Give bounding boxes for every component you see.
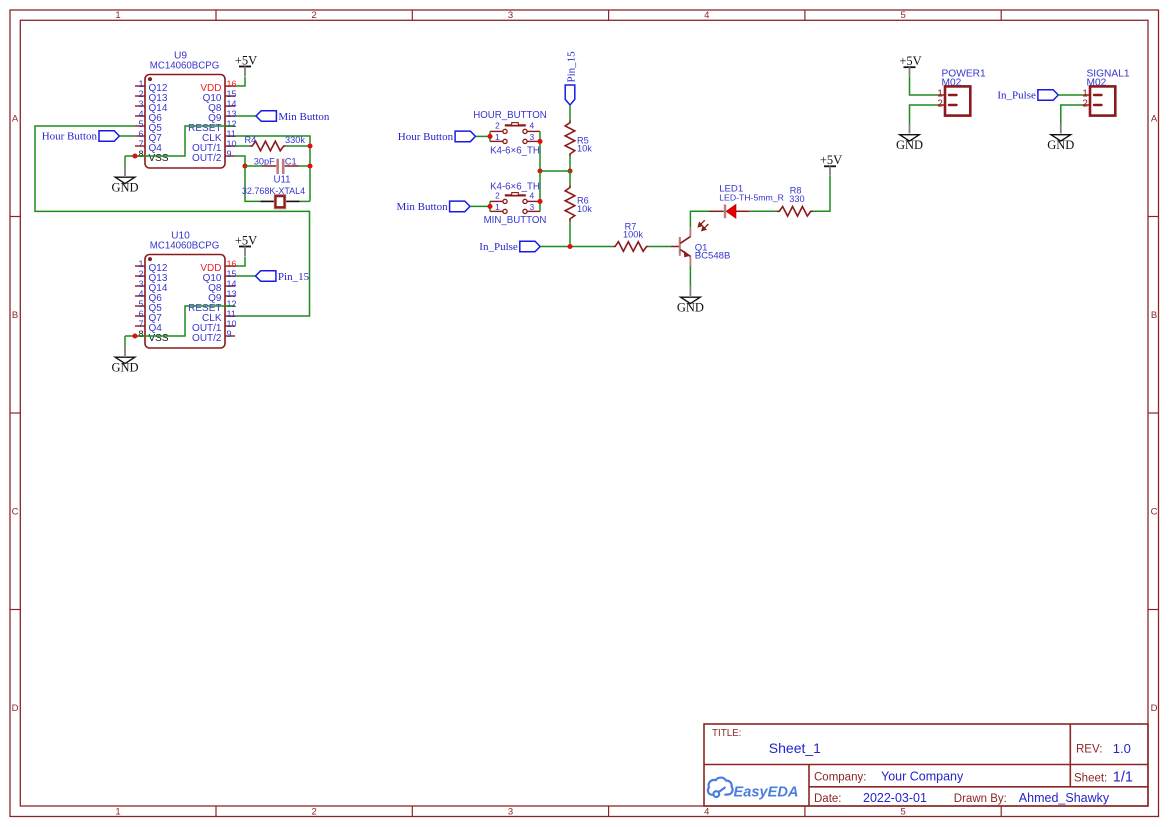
svg-text:12: 12 xyxy=(227,119,237,129)
switch HOUR_BUTTON pin 2 lead xyxy=(490,130,503,132)
switch HOUR_BUTTON pin 1 lead xyxy=(490,140,503,142)
wire U9 pin11 CLK to crystal net xyxy=(235,136,310,201)
IC U10 pin 12 (RESET) stub xyxy=(225,305,235,307)
switch HOUR_BUTTON actuator bar xyxy=(505,124,526,126)
svg-text:GND: GND xyxy=(677,300,704,314)
svg-text:330k: 330k xyxy=(285,135,305,145)
IC U10 pin 9 (OUT/2) stub xyxy=(225,335,235,337)
svg-text:MC14060BCPG: MC14060BCPG xyxy=(150,241,219,252)
IC U10 pin 13 (Q9) stub xyxy=(225,295,235,297)
IC U9 pin 13 (Q9) stub xyxy=(225,115,235,117)
svg-text:D: D xyxy=(1151,703,1158,714)
wire Q1 emitter down xyxy=(689,266,691,286)
frame column tick top 1 xyxy=(215,10,217,20)
wire U9 pin9 down to C1 row xyxy=(235,156,245,166)
junction at row join xyxy=(537,168,542,173)
net port Min Button (middle) xyxy=(450,201,470,212)
net port In_Pulse (middle) xyxy=(520,241,540,252)
IC U9 pin 1 (Q12) stub xyxy=(135,85,145,87)
svg-text:1: 1 xyxy=(495,132,500,142)
switch HOUR_BUTTON pin 2 contact circle xyxy=(503,129,507,133)
svg-text:4: 4 xyxy=(138,109,143,119)
resistor R6 10k xyxy=(569,171,571,186)
svg-text:14: 14 xyxy=(227,99,237,109)
svg-text:GND: GND xyxy=(111,360,138,374)
wire crystal right to node column xyxy=(300,200,310,202)
resistor R8 330 xyxy=(777,207,813,217)
svg-text:MIN_BUTTON: MIN_BUTTON xyxy=(484,215,547,226)
svg-text:HOUR_BUTTON: HOUR_BUTTON xyxy=(473,110,547,121)
svg-text:MC14060BCPG: MC14060BCPG xyxy=(150,61,219,72)
svg-text:Sheet:: Sheet: xyxy=(1074,772,1107,784)
net port Hour Button (middle) xyxy=(455,131,475,142)
svg-text:R4: R4 xyxy=(245,135,257,145)
frame row tick right 1 xyxy=(1148,216,1159,218)
svg-text:3: 3 xyxy=(508,807,513,818)
svg-text:10k: 10k xyxy=(577,144,592,154)
svg-text:GND: GND xyxy=(896,138,923,152)
svg-text:8: 8 xyxy=(138,329,143,339)
svg-text:B: B xyxy=(12,310,18,321)
crystal U11 32.768K-XTAL4 xyxy=(260,200,274,202)
frame row tick right 3 xyxy=(1148,609,1159,611)
svg-text:OUT/2: OUT/2 xyxy=(192,153,222,164)
svg-text:1: 1 xyxy=(115,807,120,818)
svg-text:1.0: 1.0 xyxy=(1113,741,1131,756)
svg-text:5: 5 xyxy=(138,119,143,129)
svg-text:K4-6×6_TH: K4-6×6_TH xyxy=(490,145,540,156)
IC U9 pin 4 (Q6) stub xyxy=(135,115,145,117)
svg-text:2: 2 xyxy=(138,89,143,99)
wire R4 right to node xyxy=(286,145,310,147)
wire Hour port to switch xyxy=(476,135,491,137)
junction hour left xyxy=(487,134,492,139)
switch MIN_BUTTON pin 3 contact circle xyxy=(523,209,527,213)
net port Pin_15 (at U10 pin15) xyxy=(256,271,276,282)
svg-text:REV:: REV: xyxy=(1076,744,1102,756)
ground GND (U10) xyxy=(124,346,126,356)
wire SIGNAL1 pin2 to ground xyxy=(1061,105,1083,124)
IC U9 pin 9 (OUT/2) stub xyxy=(225,155,235,157)
resistor R5 10k xyxy=(565,120,575,156)
svg-text:In_Pulse: In_Pulse xyxy=(479,241,518,253)
svg-text:2: 2 xyxy=(138,269,143,279)
IC U10 pin 8 (VSS) stub xyxy=(135,335,145,337)
net port In_Pulse (at SIGNAL1) xyxy=(1038,90,1058,101)
svg-text:6: 6 xyxy=(138,129,143,139)
ground GND (SIGNAL1) xyxy=(1060,124,1062,134)
svg-text:9: 9 xyxy=(227,149,232,159)
IC U9 pin 5 (Q5) stub xyxy=(135,125,145,127)
IC U10 pin 16 (VDD) stub xyxy=(225,265,235,267)
svg-text:30pF: 30pF xyxy=(254,156,275,166)
connector SIGNAL1 pin 1 inner bar xyxy=(1094,94,1102,96)
capacitor C1 30pF xyxy=(245,165,262,167)
svg-text:3: 3 xyxy=(508,10,513,21)
junction C1 right xyxy=(307,163,312,168)
junction U9 VSS node xyxy=(132,153,137,158)
svg-text:VSS: VSS xyxy=(149,153,169,164)
net port Pin_15 (top, pointing down) xyxy=(565,85,575,105)
wire In_Pulse port to SIGNAL1 pin1 xyxy=(1058,94,1082,96)
svg-text:A: A xyxy=(12,114,19,125)
wire min switch left bracket xyxy=(489,201,491,211)
switch HOUR_BUTTON actuator knob xyxy=(512,123,519,126)
svg-text:Your Company: Your Company xyxy=(881,770,964,784)
frame column tick bottom 3 xyxy=(608,806,610,817)
svg-text:11: 11 xyxy=(227,309,236,319)
IC U9 pin 7 (Q4) stub xyxy=(135,145,145,147)
svg-text:5: 5 xyxy=(900,807,905,818)
svg-text:4: 4 xyxy=(529,121,534,131)
wire hour switch right bracket down to junction row xyxy=(539,131,541,171)
connector POWER1 M02 body xyxy=(945,86,970,115)
connector POWER1 pin 2 lead xyxy=(938,104,945,106)
svg-text:2: 2 xyxy=(312,10,317,21)
svg-text:6: 6 xyxy=(138,309,143,319)
svg-text:Company:: Company: xyxy=(814,771,866,783)
svg-text:Min Button: Min Button xyxy=(397,201,449,213)
IC U10 pin-1 indicator dot xyxy=(148,257,152,261)
wire min switch right bracket xyxy=(539,171,541,211)
switch MIN_BUTTON actuator knob xyxy=(512,193,519,196)
svg-text:10: 10 xyxy=(227,319,237,329)
svg-text:C: C xyxy=(1151,507,1158,518)
svg-text:1: 1 xyxy=(495,202,500,212)
frame row tick left 1 xyxy=(10,216,20,218)
svg-text:15: 15 xyxy=(227,269,237,279)
switch MIN_BUTTON pin 2 lead xyxy=(490,200,503,202)
svg-text:5: 5 xyxy=(900,10,905,21)
svg-text:D: D xyxy=(12,703,19,714)
svg-text:16: 16 xyxy=(227,259,237,269)
IC U9 pin 14 (Q8) stub xyxy=(225,105,235,107)
IC U10 pin 5 (Q5) stub xyxy=(135,305,145,307)
IC U10 pin 4 (Q6) stub xyxy=(135,295,145,297)
svg-text:1/1: 1/1 xyxy=(1113,770,1133,786)
svg-text:13: 13 xyxy=(227,289,237,299)
svg-text:3: 3 xyxy=(138,279,143,289)
svg-text:2022-03-01: 2022-03-01 xyxy=(863,791,927,805)
svg-text:3: 3 xyxy=(138,99,143,109)
wire Q1 collector up to LED row xyxy=(690,211,709,227)
led LED1 emission arrows xyxy=(698,220,708,230)
svg-text:GND: GND xyxy=(111,180,138,194)
svg-text:7: 7 xyxy=(138,139,143,149)
resistor R7 100k xyxy=(613,242,649,252)
transistor Q1 BC548B xyxy=(671,246,679,248)
junction U10 VSS node xyxy=(132,333,137,338)
svg-text:14: 14 xyxy=(227,279,237,289)
resistor R4 330k xyxy=(250,141,286,151)
IC U10 pin 14 (Q8) stub xyxy=(225,285,235,287)
svg-text:+5V: +5V xyxy=(235,233,257,247)
svg-text:3: 3 xyxy=(529,202,534,212)
svg-text:4: 4 xyxy=(704,807,709,818)
wire R6 to In_Pulse row xyxy=(569,221,571,247)
wire +5V to POWER1 pin1 xyxy=(910,77,938,95)
frame column tick top 3 xyxy=(608,10,610,20)
switch MIN_BUTTON actuator bar xyxy=(505,194,526,196)
wire junction to switch column xyxy=(540,170,570,172)
svg-text:9: 9 xyxy=(227,329,232,339)
wire Pin_15 to R5 xyxy=(569,105,571,121)
svg-text:8: 8 xyxy=(138,149,143,159)
ground GND (POWER1) xyxy=(909,124,911,134)
svg-text:B: B xyxy=(1151,310,1157,321)
connector SIGNAL1 M02 body xyxy=(1090,86,1115,115)
svg-text:4: 4 xyxy=(704,10,709,21)
IC U9 pin 15 (Q10) stub xyxy=(225,95,235,97)
svg-text:EasyEDA: EasyEDA xyxy=(734,784,799,800)
junction min left xyxy=(487,204,492,209)
svg-text:10: 10 xyxy=(227,139,237,149)
IC U10 pin 11 (CLK) stub xyxy=(225,315,235,317)
wire POWER1 pin2 to ground xyxy=(910,105,938,124)
svg-text:+5V: +5V xyxy=(235,53,257,67)
switch HOUR_BUTTON pin 4 lead xyxy=(527,130,540,132)
svg-text:C: C xyxy=(12,507,19,518)
ground GND (Q1) xyxy=(689,286,691,296)
IC U9 pin-1 indicator dot xyxy=(148,77,152,81)
svg-text:M02: M02 xyxy=(1087,78,1107,89)
frame column tick top 2 xyxy=(411,10,413,20)
frame row tick right 2 xyxy=(1148,412,1159,414)
net port Hour Button (left) xyxy=(99,131,119,142)
IC U9 pin 11 (CLK) stub xyxy=(225,135,235,137)
svg-text:10k: 10k xyxy=(577,204,592,214)
wire U10 VSS to RESET (through body) xyxy=(125,306,235,336)
frame column tick top 5 xyxy=(1000,10,1002,20)
svg-text:Hour Button: Hour Button xyxy=(398,131,454,143)
frame column tick top 4 xyxy=(804,10,806,20)
svg-text:Pin_15: Pin_15 xyxy=(278,271,310,283)
svg-text:2: 2 xyxy=(495,191,500,201)
IC U9 pin 12 (RESET) stub xyxy=(225,125,235,127)
svg-text:330: 330 xyxy=(789,194,804,204)
switch HOUR_BUTTON pin 4 contact circle xyxy=(523,129,527,133)
svg-text:100k: 100k xyxy=(623,230,643,240)
connector POWER1 pin 1 lead xyxy=(938,94,945,96)
junction C1 left xyxy=(242,163,247,168)
frame column tick bottom 1 xyxy=(215,806,217,817)
switch HOUR_BUTTON pin 3 contact circle xyxy=(523,139,527,143)
frame column tick bottom 4 xyxy=(804,806,806,817)
wire U9 VSS to ground xyxy=(124,156,126,166)
svg-text:LED-TH-5mm_R: LED-TH-5mm_R xyxy=(719,192,784,202)
svg-text:Hour Button: Hour Button xyxy=(42,131,98,143)
svg-text:11: 11 xyxy=(227,129,236,139)
junction min pin4 xyxy=(537,199,542,204)
title block outline xyxy=(704,724,1148,806)
connector SIGNAL1 pin 1 lead xyxy=(1083,94,1090,96)
svg-text:C1: C1 xyxy=(285,156,297,166)
svg-text:+5V: +5V xyxy=(820,153,842,167)
svg-text:BC548B: BC548B xyxy=(695,251,731,262)
svg-text:Pin_15: Pin_15 xyxy=(566,51,578,83)
svg-text:15: 15 xyxy=(227,89,237,99)
wire C1 left node down to crystal xyxy=(245,166,260,201)
wire R7 to Q1 base xyxy=(649,246,671,248)
wire hour switch left bracket xyxy=(489,131,491,141)
junction resistor divider xyxy=(567,168,572,173)
wire Hour Button port to U9 pin6 xyxy=(120,135,135,137)
switch MIN_BUTTON pin 4 contact circle xyxy=(523,199,527,203)
wire R8 to +5V xyxy=(813,176,830,211)
wire U10 VSS to ground xyxy=(124,336,126,346)
IC U10 MC14060BCPG body xyxy=(145,255,225,349)
svg-text:13: 13 xyxy=(227,109,237,119)
svg-text:VSS: VSS xyxy=(149,333,169,344)
junction In_Pulse column xyxy=(567,244,572,249)
ground GND (U9) xyxy=(124,166,126,176)
svg-text:GND: GND xyxy=(1047,138,1074,152)
led LED1 LED-TH-5mm_R xyxy=(709,210,724,212)
svg-text:4: 4 xyxy=(138,289,143,299)
connector SIGNAL1 pin 2 inner bar xyxy=(1094,104,1102,106)
frame column tick bottom 2 xyxy=(411,806,413,817)
IC U10 pin 6 (Q7) stub xyxy=(135,315,145,317)
switch MIN_BUTTON pin 2 contact circle xyxy=(503,199,507,203)
switch HOUR_BUTTON pin 1 contact circle xyxy=(503,139,507,143)
wire In_Pulse to R7 xyxy=(540,246,613,248)
svg-text:TITLE:: TITLE: xyxy=(712,728,741,739)
svg-text:Date:: Date: xyxy=(814,793,842,805)
svg-text:3: 3 xyxy=(529,132,534,142)
svg-text:Min Button: Min Button xyxy=(278,111,330,123)
IC U10 pin 15 (Q10) stub xyxy=(225,275,235,277)
svg-text:32.768K-XTAL4: 32.768K-XTAL4 xyxy=(242,186,305,196)
svg-text:2: 2 xyxy=(312,807,317,818)
connector POWER1 pin 2 inner bar xyxy=(949,104,957,106)
svg-text:Ahmed_Shawky: Ahmed_Shawky xyxy=(1019,791,1110,805)
switch MIN_BUTTON pin 1 contact circle xyxy=(503,209,507,213)
svg-text:U11: U11 xyxy=(273,174,290,185)
svg-text:Sheet_1: Sheet_1 xyxy=(769,740,821,756)
svg-text:2: 2 xyxy=(495,121,500,131)
svg-text:OUT/2: OUT/2 xyxy=(192,333,222,344)
wire LED to R8 xyxy=(750,210,778,212)
IC U10 pin 7 (Q4) stub xyxy=(135,325,145,327)
svg-text:2: 2 xyxy=(1082,99,1087,110)
switch HOUR_BUTTON pin 3 lead xyxy=(527,140,540,142)
svg-text:5: 5 xyxy=(138,299,143,309)
svg-text:In_Pulse: In_Pulse xyxy=(997,90,1036,102)
IC U10 pin 3 (Q14) stub xyxy=(135,285,145,287)
switch MIN_BUTTON pin 3 lead xyxy=(527,210,540,212)
wire U9 pin10 to R4 xyxy=(235,145,250,147)
IC U9 pin 16 (VDD) stub xyxy=(225,85,235,87)
svg-text:M02: M02 xyxy=(942,78,962,89)
wire U9 pin13 to Min Button port xyxy=(235,115,256,117)
wire U9 pin16 to +5V xyxy=(235,77,245,87)
wire U10 pin16 to +5V xyxy=(235,257,245,267)
svg-text:4: 4 xyxy=(529,191,534,201)
svg-text:1: 1 xyxy=(138,79,143,89)
junction hour pin3 xyxy=(537,139,542,144)
junction R4 right xyxy=(307,143,312,148)
wire U9 pin5 loop down-right to U10 pin11 (CLK) xyxy=(35,126,310,316)
IC U9 pin 8 (VSS) stub xyxy=(135,155,145,157)
frame column tick bottom 5 xyxy=(1000,806,1002,817)
IC U9 pin 6 (Q7) stub xyxy=(135,135,145,137)
logo EasyEDA cloud xyxy=(708,778,733,797)
wire R5 to junction xyxy=(569,156,571,171)
IC U9 MC14060BCPG body xyxy=(145,75,225,169)
connector SIGNAL1 pin 2 lead xyxy=(1083,104,1090,106)
svg-text:2: 2 xyxy=(937,99,942,110)
switch MIN_BUTTON pin 4 lead xyxy=(527,200,540,202)
switch MIN_BUTTON pin 1 lead xyxy=(490,210,503,212)
IC U10 pin 2 (Q13) stub xyxy=(135,275,145,277)
frame row tick left 3 xyxy=(10,609,20,611)
svg-text:+5V: +5V xyxy=(899,54,921,68)
frame row tick left 2 xyxy=(10,412,20,414)
svg-text:1: 1 xyxy=(115,10,120,21)
svg-text:12: 12 xyxy=(227,299,237,309)
IC U9 pin 10 (OUT/1) stub xyxy=(225,145,235,147)
svg-text:16: 16 xyxy=(227,79,237,89)
wire U10 pin15 to Pin_15 port xyxy=(235,275,256,277)
svg-text:Drawn By:: Drawn By: xyxy=(954,793,1007,805)
svg-text:7: 7 xyxy=(138,319,143,329)
IC U10 pin 1 (Q12) stub xyxy=(135,265,145,267)
IC U9 pin 3 (Q14) stub xyxy=(135,105,145,107)
wire U9 VSS to RESET (through body) xyxy=(125,126,235,156)
IC U9 pin 2 (Q13) stub xyxy=(135,95,145,97)
connector POWER1 pin 1 inner bar xyxy=(949,94,957,96)
wire Min port to switch xyxy=(470,205,490,207)
IC U10 pin 10 (OUT/1) stub xyxy=(225,325,235,327)
svg-text:A: A xyxy=(1151,114,1158,125)
svg-text:1: 1 xyxy=(138,259,143,269)
